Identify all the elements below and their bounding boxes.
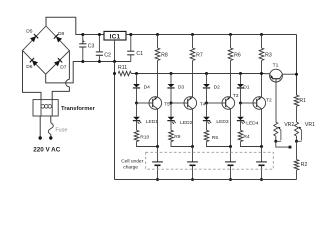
node C2 bottom — [98, 60, 101, 63]
wire VR2 tail — [276, 141, 290, 147]
node base junction T4 — [170, 102, 173, 105]
wire top bus to R6 — [230, 35, 232, 49]
potentiometer VR2 element — [274, 122, 278, 136]
svg-text:D7: D7 — [60, 64, 67, 70]
wire cell bottom lead 1 — [157, 165, 159, 179]
node C2 top — [98, 33, 101, 36]
LED LED2 arrows — [172, 122, 174, 124]
node cell bottom 1 — [156, 178, 159, 181]
potentiometer VR2 wiper arrow — [279, 127, 281, 140]
IC1 regulator box — [104, 31, 126, 40]
svg-text:R6: R6 — [234, 53, 241, 59]
node C3 top — [81, 33, 84, 36]
node bias line at R3 bottom — [260, 72, 263, 75]
wire R4 bottom to cell node — [241, 142, 262, 147]
wire transformer right lead to fuse — [50, 116, 52, 123]
svg-text:Fuse: Fuse — [55, 127, 67, 133]
node base junction T3 — [205, 102, 208, 105]
svg-text:Transformer: Transformer — [61, 106, 96, 112]
wire cell top lead 1 — [157, 147, 159, 162]
wire fuse to AC terminal — [50, 134, 52, 137]
svg-text:R5: R5 — [212, 135, 219, 141]
LED LED3 arrows — [207, 122, 209, 124]
cell 1 positive plate — [152, 161, 163, 163]
transistor T1 base bar — [272, 78, 280, 80]
svg-text:LED2: LED2 — [180, 120, 193, 126]
node cell bottom 4 — [260, 178, 263, 181]
node top bus at R3 — [260, 33, 263, 36]
transistor T1 circle — [270, 69, 283, 82]
wire D2 cathode to base node — [206, 88, 208, 103]
resistor R9 — [169, 130, 174, 141]
wire D3 anode — [170, 74, 172, 85]
transistor T1 right diagonal collector — [280, 74, 283, 78]
AC terminal right — [49, 136, 52, 139]
svg-text:D6: D6 — [26, 64, 33, 70]
svg-text:D4: D4 — [144, 84, 151, 90]
svg-text:R8: R8 — [161, 53, 168, 59]
wire AC2 upper part — [68, 51, 70, 80]
node cell bottom 2 — [191, 178, 194, 181]
node cell top 4 — [260, 145, 263, 148]
wire VR1 wiper stub to bottom — [297, 140, 302, 142]
cell 3 positive plate — [225, 161, 236, 163]
capacitor C2 — [96, 51, 103, 53]
svg-text:VR1: VR1 — [305, 122, 315, 128]
wire R1 to VR1 — [296, 106, 298, 122]
wire R7 to transistor emitter — [192, 61, 194, 97]
wire left rail — [114, 62, 116, 180]
diode D2 — [203, 84, 210, 87]
svg-text:D3: D3 — [178, 84, 185, 90]
svg-text:D1: D1 — [243, 85, 250, 91]
wire AC1 bridge left corner to transformer — [23, 51, 42, 100]
node IC1 ground on bus — [113, 60, 116, 63]
svg-text:T2: T2 — [266, 97, 272, 103]
wire R8 to transistor emitter — [157, 61, 159, 97]
wire D4 cathode to base node — [136, 88, 138, 103]
wire bridge positive output to IC1 input — [46, 17, 104, 34]
resistor R4 — [238, 130, 243, 141]
wire T2 collector down — [261, 109, 263, 147]
wire T1 collector to R1 node — [282, 73, 296, 75]
svg-text:T1: T1 — [273, 62, 279, 68]
svg-text:T3: T3 — [233, 93, 239, 99]
resistor R8 — [155, 48, 160, 61]
svg-text:R10: R10 — [140, 134, 149, 140]
svg-text:220 V AC: 220 V AC — [33, 147, 61, 154]
node base junction T2 — [239, 102, 242, 105]
wire base to T3 — [207, 102, 223, 104]
svg-text:R2: R2 — [301, 162, 308, 168]
LED LED4 arrows — [241, 122, 243, 124]
LED LED3 — [203, 117, 210, 120]
svg-text:Cell under: Cell under — [121, 158, 143, 164]
wire VR1 bottom — [296, 136, 298, 141]
LED LED4 — [237, 117, 244, 120]
node top bus at R8 — [156, 33, 159, 36]
wire R6 to transistor emitter — [230, 61, 232, 97]
node C3 bottom — [81, 60, 84, 63]
potentiometer VR1 element — [295, 122, 299, 136]
svg-text:R7: R7 — [196, 53, 203, 59]
wire LED2 to R9 — [170, 121, 172, 131]
wire top bus right corner down — [296, 35, 298, 96]
potentiometer VR1 wiper arrow — [299, 127, 301, 140]
wire cell top lead 2 — [192, 147, 194, 162]
svg-text:R1: R1 — [299, 98, 306, 104]
transistor T5 — [149, 97, 162, 110]
wire T4 collector down — [192, 109, 194, 147]
transistor T2 — [253, 97, 266, 110]
wire cell top lead 3 — [230, 147, 232, 162]
wire R11 to D4 — [131, 73, 136, 75]
capacitor C3 wire top — [82, 35, 84, 44]
wire VR1 to R2 — [296, 141, 298, 159]
wire base to T5 — [137, 102, 150, 104]
resistor R2 — [294, 160, 299, 170]
bridge rectifier diamond outline — [23, 26, 70, 74]
wire LED1 to R10 — [136, 121, 138, 131]
wire T3 collector down — [230, 109, 232, 147]
svg-text:D8: D8 — [58, 31, 65, 37]
cell 1 negative plate — [155, 164, 161, 166]
capacitor C1 wire bottom — [130, 55, 132, 62]
svg-text:D5: D5 — [26, 29, 33, 35]
capacitor C2 wire top — [98, 35, 100, 52]
diode D7 — [54, 60, 60, 66]
wire base to T4 — [171, 102, 184, 104]
wire LED4 to R4 — [240, 121, 242, 131]
wire transformer internal left — [40, 100, 42, 116]
resistor R10 — [134, 130, 139, 141]
wire cell bottom lead 3 — [230, 165, 232, 179]
node bias line at D4 — [135, 72, 138, 75]
svg-text:R3: R3 — [265, 53, 272, 59]
wire bottom bus — [115, 179, 297, 181]
wire top bus to R7 — [192, 35, 194, 49]
wire AC2 transformer to bridge right corner lower part — [52, 87, 69, 100]
cell 2 negative plate — [190, 164, 196, 166]
wire bias line across channels — [137, 73, 262, 75]
LED LED1 arrows — [137, 122, 139, 124]
LED LED2 — [168, 117, 175, 120]
svg-text:LED3: LED3 — [216, 119, 229, 125]
svg-text:R9: R9 — [174, 134, 181, 140]
wire R5 bottom to cell node — [207, 142, 231, 147]
wire T5 collector down — [157, 109, 159, 147]
fuse F1 — [48, 123, 53, 135]
resistor R6 — [228, 48, 233, 61]
svg-text:C2: C2 — [104, 53, 111, 59]
svg-text:T5: T5 — [164, 101, 170, 107]
wire D2 anode — [206, 74, 208, 85]
wire cell top lead 4 — [261, 147, 263, 162]
node cell bottom 3 — [229, 178, 232, 181]
cell pack dashed outline — [146, 152, 274, 169]
resistor R7 — [190, 48, 195, 61]
wire R10 bottom to cell node — [137, 142, 158, 147]
svg-text:R4: R4 — [243, 134, 250, 140]
wire D1 anode — [240, 74, 242, 85]
resistor R11 — [118, 71, 131, 76]
wire bias line to T1 emitter — [262, 73, 271, 75]
wire LED anode LED3 — [206, 103, 208, 117]
capacitor C1 wire top — [130, 35, 132, 52]
svg-text:VR2: VR2 — [284, 122, 294, 128]
wire cell bottom lead 2 — [192, 165, 194, 179]
wire top bus to R8 — [157, 35, 159, 49]
wire LED anode LED1 — [136, 103, 138, 117]
diode D5 — [30, 36, 36, 42]
transformer X1 box — [33, 100, 58, 116]
diode D4 — [133, 84, 140, 87]
wire bridge negative output to ground bus — [46, 62, 131, 83]
node cell top 3 — [229, 145, 232, 148]
wire LED anode LED4 — [240, 103, 242, 117]
wire top bus to R3 — [261, 35, 263, 49]
wire R2 to bottom bus — [296, 170, 298, 180]
node VR2 bottom junction — [274, 140, 277, 143]
node VR2 tail end — [289, 146, 292, 149]
node cell top 1 — [156, 145, 159, 148]
cell 4 positive plate — [256, 161, 267, 163]
wire R9 bottom to cell node — [171, 142, 193, 147]
wire D4 anode — [136, 74, 138, 85]
diode D6 — [32, 60, 38, 66]
IC1 ground pin — [114, 40, 116, 62]
svg-text:R11: R11 — [118, 65, 127, 71]
cell 4 negative plate — [259, 164, 265, 166]
node C1 top — [129, 33, 132, 36]
wire R3 to transistor emitter — [261, 61, 263, 97]
diode D3 — [168, 84, 175, 87]
svg-text:D2: D2 — [214, 85, 221, 91]
transistor T3 — [222, 97, 235, 110]
node cell top 2 — [191, 145, 194, 148]
capacitor C3 wire bottom — [82, 47, 84, 62]
wire D1 cathode to base node — [240, 88, 242, 103]
resistor R1 — [294, 95, 299, 106]
resistor R5 — [204, 130, 209, 141]
svg-text:C3: C3 — [88, 44, 95, 50]
node VR1 bottom junction — [295, 140, 298, 143]
node T1 collector R1 junction — [295, 73, 298, 76]
node top bus at R7 — [191, 33, 194, 36]
cell 3 negative plate — [228, 164, 234, 166]
svg-text:LED1: LED1 — [146, 119, 159, 125]
transistor T1 emitter arrow — [270, 76, 273, 79]
wire LED anode LED2 — [170, 103, 172, 117]
wire LED3 to R5 — [206, 121, 208, 131]
wire VR2 bottom — [275, 136, 277, 141]
resistor R3 — [259, 48, 264, 61]
cell 2 positive plate — [187, 161, 198, 163]
svg-text:T4: T4 — [200, 101, 206, 107]
svg-text:LED4: LED4 — [246, 120, 259, 126]
transistor T4 — [184, 97, 197, 110]
transistor T1 left diagonal emitter — [270, 74, 273, 78]
diode D8 — [56, 36, 62, 42]
svg-text:IC1: IC1 — [110, 33, 121, 40]
node bias line at D3 — [170, 72, 173, 75]
svg-text:+: + — [82, 39, 85, 45]
diode D1 — [237, 84, 244, 87]
svg-text:charge: charge — [123, 164, 138, 170]
wire cell bottom lead 4 — [261, 165, 263, 179]
capacitor C3 — [79, 43, 86, 45]
AC terminal left — [39, 136, 42, 139]
wire hop AC2 crossing negative wire — [66, 79, 70, 86]
wire D3 cathode to base node — [170, 88, 172, 103]
wire IC1 output top bus — [126, 34, 297, 36]
node bias line at D2 — [205, 72, 208, 75]
wire transformer left lead to AC terminal — [39, 116, 41, 138]
LED LED1 — [133, 117, 140, 120]
node top bus at R6 — [229, 33, 232, 36]
wire VR2 wiper stub to bottom — [276, 140, 281, 142]
node base junction T5 — [135, 102, 138, 105]
wire base to T2 — [241, 102, 254, 104]
transformer winding circles — [41, 105, 45, 109]
capacitor C1 — [127, 50, 134, 52]
svg-text:C1: C1 — [136, 51, 143, 57]
node bias line at D1 — [239, 72, 242, 75]
wire T1 base down to VR2 — [275, 79, 277, 122]
capacitor C2 wire bottom — [98, 55, 100, 61]
wire transformer internal right — [51, 100, 53, 116]
node R11 left junction — [113, 72, 116, 75]
